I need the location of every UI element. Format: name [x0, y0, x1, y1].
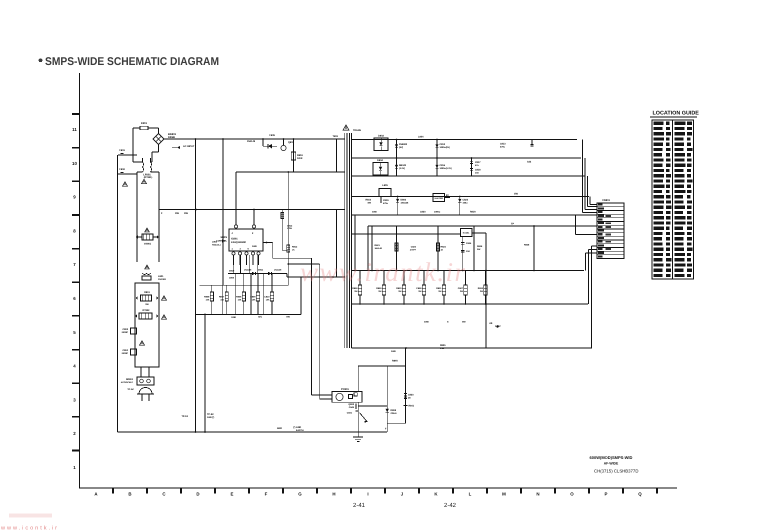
- svg-text:R801: R801: [144, 291, 150, 294]
- svg-text:RT802: RT802: [143, 309, 151, 312]
- svg-text:2200P: 2200P: [122, 352, 129, 355]
- svg-text:GND: GND: [231, 316, 236, 319]
- svg-text:(*) GND: (*) GND: [293, 426, 302, 429]
- svg-text:www.icontk.ir: www.icontk.ir: [0, 525, 59, 531]
- svg-text:C805: C805: [269, 134, 275, 137]
- svg-text:C810: C810: [264, 296, 270, 299]
- svg-text:GND: GND: [372, 211, 377, 214]
- svg-text:R819: R819: [470, 211, 476, 214]
- svg-text:10K: 10K: [206, 299, 210, 302]
- svg-text:Q: Q: [638, 492, 642, 497]
- svg-text:R808: R808: [236, 296, 242, 299]
- svg-text:Q802: Q802: [348, 403, 354, 406]
- svg-text:SR801: SR801: [126, 378, 134, 381]
- svg-text:C820: C820: [420, 211, 426, 214]
- svg-text:C801: C801: [119, 149, 125, 152]
- svg-text:R821: R821: [375, 244, 381, 247]
- svg-text:P: P: [605, 492, 608, 497]
- svg-text:2200P: 2200P: [122, 331, 129, 334]
- svg-text:C823: C823: [411, 246, 417, 249]
- svg-text:TRANS: TRANS: [353, 129, 361, 132]
- svg-text:2W: 2W: [480, 290, 483, 293]
- svg-text:470u: 470u: [383, 202, 389, 205]
- svg-text:+B: +B: [489, 322, 493, 325]
- svg-text:T801: T801: [333, 135, 339, 138]
- svg-text:1N4148: 1N4148: [244, 269, 252, 272]
- svg-text:C945: C945: [349, 406, 355, 409]
- svg-text:D811: D811: [258, 269, 264, 272]
- svg-text:R828: R828: [352, 287, 358, 290]
- svg-text:C802: C802: [119, 168, 125, 171]
- svg-text:CONTROL: CONTROL: [216, 240, 227, 243]
- svg-text:F: F: [265, 492, 268, 497]
- svg-text:O: O: [570, 492, 574, 497]
- svg-text:GND: GND: [252, 245, 257, 248]
- svg-text:N: N: [536, 492, 539, 497]
- svg-text:C816: C816: [440, 164, 446, 167]
- svg-text:B: B: [128, 492, 131, 497]
- svg-text:TP: TP: [511, 223, 514, 226]
- svg-text:1N4148: 1N4148: [274, 269, 282, 272]
- svg-text:2W: 2W: [438, 290, 441, 293]
- svg-text:EARTH: EARTH: [296, 429, 304, 432]
- svg-text:600W(MOD)SMPS-WID: 600W(MOD)SMPS-WID: [590, 455, 633, 460]
- svg-text:120K: 120K: [297, 157, 303, 160]
- svg-text:11: 11: [72, 127, 77, 132]
- svg-text:R831: R831: [436, 287, 442, 290]
- svg-text:R812: R812: [292, 246, 298, 249]
- svg-text:A33: A33: [527, 161, 532, 164]
- svg-text:L: L: [469, 492, 472, 497]
- svg-text:2W: 2W: [418, 290, 421, 293]
- svg-text:L801: L801: [158, 275, 164, 278]
- svg-text:1N4148: 1N4148: [375, 247, 383, 250]
- svg-text:8V: 8V: [446, 194, 449, 197]
- svg-text:C803: C803: [123, 328, 129, 331]
- svg-text:TO AC: TO AC: [127, 388, 134, 391]
- svg-text:C822: C822: [463, 199, 469, 202]
- svg-text:R841: R841: [409, 405, 415, 408]
- svg-text:L804: L804: [418, 136, 424, 139]
- svg-text:PC801: PC801: [341, 388, 349, 391]
- svg-text:L802: L802: [212, 241, 218, 244]
- svg-text:10K: 10K: [266, 299, 270, 302]
- svg-text:1N5822: 1N5822: [399, 143, 408, 146]
- svg-text:M: M: [502, 492, 506, 497]
- svg-text:CH(3715) CLSHB377D: CH(3715) CLSHB377D: [594, 469, 638, 474]
- svg-text:ZD5.6: ZD5.6: [391, 412, 398, 415]
- svg-text:D804: D804: [377, 159, 383, 162]
- svg-text:2W: 2W: [460, 290, 463, 293]
- svg-text:C824: C824: [466, 242, 472, 245]
- svg-text:2W: 2W: [398, 290, 401, 293]
- svg-text:F801: F801: [141, 122, 147, 125]
- svg-text:GND: GND: [424, 321, 429, 324]
- svg-text:2W: 2W: [378, 290, 381, 293]
- svg-text:C809: C809: [229, 277, 235, 280]
- svg-text:C813: C813: [500, 143, 506, 146]
- svg-text:GND: GND: [391, 350, 396, 353]
- svg-text:D: D: [196, 492, 199, 497]
- svg-text:2W: 2W: [354, 290, 357, 293]
- svg-text:SMPS-WIDE SCHEMATIC DIAGRAM: SMPS-WIDE SCHEMATIC DIAGRAM: [45, 56, 219, 68]
- svg-text:R807: R807: [219, 296, 225, 299]
- svg-text:1000u(5V): 1000u(5V): [440, 146, 451, 149]
- svg-text:C817: C817: [475, 161, 481, 164]
- svg-text:1N4148: 1N4148: [247, 140, 256, 143]
- svg-text:R835: R835: [440, 344, 446, 347]
- svg-text:L805: L805: [382, 184, 388, 187]
- svg-text:D806: D806: [401, 199, 407, 202]
- svg-text:10K: 10K: [238, 299, 242, 302]
- svg-text:R832: R832: [478, 287, 484, 290]
- svg-text:470u: 470u: [500, 146, 506, 149]
- svg-text:SW: SW: [477, 248, 480, 251]
- svg-text:R830: R830: [396, 287, 402, 290]
- svg-text:(5V): (5V): [399, 146, 403, 149]
- svg-text:D803: D803: [378, 135, 384, 138]
- svg-text:KIA7808: KIA7808: [435, 197, 444, 200]
- svg-text:C826: C826: [416, 287, 422, 290]
- svg-text:TP-S2: TP-S2: [207, 413, 214, 416]
- svg-text:FB(COL): FB(COL): [212, 243, 221, 246]
- svg-text:AF-WIDE: AF-WIDE: [604, 462, 619, 466]
- svg-text:S(*): S(*): [258, 316, 262, 319]
- svg-text:www.irantk.ir: www.irantk.ir: [300, 257, 465, 287]
- svg-text:C812: C812: [440, 143, 446, 146]
- svg-text:(RT801): (RT801): [144, 176, 153, 179]
- svg-text:1000u(3.3V): 1000u(3.3V): [440, 167, 452, 170]
- svg-text:(3.3V): (3.3V): [399, 167, 405, 170]
- svg-text:I: I: [367, 492, 368, 497]
- svg-text:10: 10: [72, 161, 77, 166]
- svg-text:C830: C830: [408, 394, 414, 397]
- svg-text:KA5Q1265RF: KA5Q1265RF: [231, 241, 247, 244]
- svg-text:R829: R829: [376, 287, 382, 290]
- svg-text:CN801: CN801: [602, 199, 610, 202]
- svg-text:D5SB: D5SB: [168, 136, 175, 139]
- svg-text:D808: D808: [391, 409, 397, 412]
- svg-text:R826: R826: [524, 244, 530, 247]
- svg-text:R824: R824: [441, 246, 447, 249]
- svg-text:CHOKE: CHOKE: [158, 278, 166, 281]
- svg-text:2-42: 2-42: [444, 502, 457, 509]
- svg-text:R838: R838: [477, 245, 483, 248]
- svg-text:C831: C831: [347, 412, 353, 415]
- svg-text:SB340: SB340: [399, 164, 407, 167]
- svg-text:470PF: 470PF: [410, 249, 417, 252]
- svg-text:1N4148: 1N4148: [401, 202, 409, 205]
- svg-text:C818: C818: [475, 169, 481, 172]
- svg-text:10K: 10K: [252, 299, 256, 302]
- svg-text:TP-S1: TP-S1: [181, 415, 188, 418]
- svg-text:H: H: [332, 492, 335, 497]
- svg-text:C819: C819: [383, 199, 389, 202]
- svg-text:2-41: 2-41: [353, 502, 366, 509]
- svg-text:1/2W: 1/2W: [287, 227, 292, 230]
- svg-text:C827: C827: [458, 287, 464, 290]
- svg-text:47u: 47u: [475, 164, 479, 167]
- svg-text:G: G: [298, 492, 302, 497]
- svg-text:R840: R840: [392, 360, 398, 363]
- svg-text:C804: C804: [123, 349, 129, 352]
- svg-text:1000u: 1000u: [434, 211, 441, 214]
- svg-text:R806: R806: [204, 296, 210, 299]
- svg-text:VA801: VA801: [144, 243, 152, 246]
- svg-text:R803: R803: [297, 154, 303, 157]
- svg-text:KA431: KA431: [463, 232, 470, 235]
- svg-text:AC INPUT: AC INPUT: [183, 145, 195, 148]
- svg-text:D810: D810: [229, 270, 235, 273]
- svg-text:GND(*): GND(*): [207, 416, 214, 419]
- svg-text:100u: 100u: [463, 202, 469, 205]
- svg-text:E: E: [231, 492, 234, 497]
- svg-text:AC/SOCKET: AC/SOCKET: [121, 381, 134, 384]
- svg-text:SMPS: SMPS: [220, 236, 227, 239]
- svg-text:GND: GND: [277, 427, 282, 430]
- svg-text:R816: R816: [366, 199, 372, 202]
- svg-text:LOCATION GUIDE: LOCATION GUIDE: [653, 111, 700, 117]
